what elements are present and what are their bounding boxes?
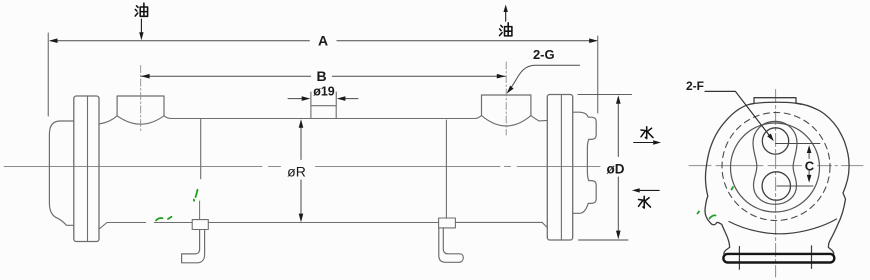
bracket lug left bbox=[192, 220, 208, 230]
svg-text:2-G: 2-G bbox=[533, 47, 555, 62]
baffle line right bbox=[445, 120, 447, 218]
water arrow top (right) bbox=[634, 142, 657, 144]
svg-text:2-F: 2-F bbox=[686, 79, 704, 93]
water label bottom (glyph shui) bbox=[639, 196, 651, 208]
shell bottom line bbox=[107, 221, 542, 223]
foot bracket right bbox=[439, 228, 464, 262]
right end cap with water nozzles bbox=[573, 112, 597, 213]
bolt tick right bbox=[811, 246, 813, 269]
shell top line bbox=[171, 118, 475, 120]
left flange bbox=[74, 96, 99, 242]
centerline main axis bbox=[4, 166, 600, 168]
hub weld bottom-left bbox=[99, 223, 107, 230]
2-G leader bbox=[508, 65, 579, 91]
oil label right (glyph you) bbox=[500, 23, 512, 36]
port right centerline bbox=[505, 62, 507, 135]
C dimension line bbox=[808, 148, 810, 181]
bracket lug right bbox=[439, 218, 456, 228]
diaR dimension bbox=[300, 121, 302, 221]
boss dia19 bbox=[311, 106, 336, 119]
hub weld bottom-right bbox=[542, 222, 547, 227]
dimension A extension right bbox=[597, 36, 599, 113]
oil arrow left (down) bbox=[140, 19, 142, 36]
bolt circle (dashed) bbox=[722, 113, 830, 221]
figure-8 divider outline bbox=[753, 121, 797, 204]
end view outer casting outline bbox=[705, 98, 849, 254]
water arrow bottom (left) bbox=[637, 189, 660, 191]
dimension A extension left bbox=[47, 33, 49, 116]
foot bracket left bbox=[182, 230, 205, 263]
C dimension reference lines bbox=[776, 144, 820, 187]
end view h centerline bbox=[689, 165, 863, 167]
arc passing beneath boss bbox=[749, 102, 801, 104]
oil hole bottom bbox=[762, 172, 790, 200]
tube sheet circle bbox=[731, 123, 820, 212]
end view outer circle bottom arc bbox=[729, 219, 837, 234]
svg-text:C: C bbox=[805, 158, 815, 173]
svg-text:A: A bbox=[318, 33, 328, 49]
left end cap bbox=[49, 121, 73, 225]
oil port left bbox=[117, 96, 164, 116]
green scan marks bbox=[156, 187, 733, 221]
right flange bbox=[547, 95, 572, 241]
dimension B line bbox=[141, 75, 505, 77]
dimension A line bbox=[51, 40, 597, 42]
svg-text:øR: øR bbox=[287, 163, 306, 179]
dia19 dimension bbox=[311, 92, 336, 106]
diaD dimension bbox=[578, 95, 632, 240]
oil hole top bbox=[762, 128, 788, 154]
svg-text:B: B bbox=[316, 68, 326, 84]
2-F leader bbox=[705, 91, 772, 138]
foot base slab bbox=[723, 254, 834, 263]
oil label left (glyph you) bbox=[135, 3, 147, 16]
water label top (glyph shui) bbox=[641, 127, 653, 139]
oil arrow right (up) bbox=[504, 5, 508, 13]
svg-text:øD: øD bbox=[607, 162, 625, 177]
end view v centerline bbox=[775, 90, 777, 278]
port left centerline bbox=[140, 66, 142, 134]
baffle line left bbox=[200, 119, 202, 179]
oil port right bbox=[482, 95, 531, 116]
svg-text:ø19: ø19 bbox=[313, 85, 335, 99]
bolt tick left bbox=[738, 247, 740, 270]
